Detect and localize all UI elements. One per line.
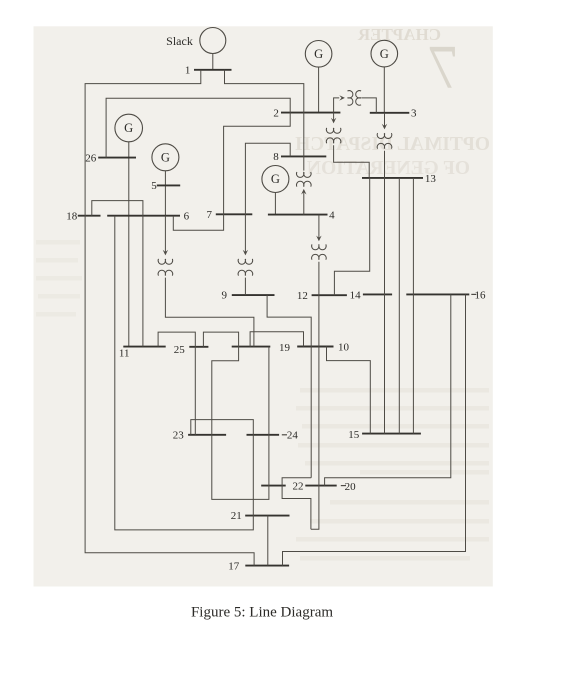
wire line 3-15 long vertical (crosses 13 and 14) bbox=[384, 151, 386, 434]
svg-text:7: 7 bbox=[428, 34, 459, 102]
bus 6 bbox=[107, 215, 180, 217]
wire line 6-23 wrap-around bbox=[115, 216, 254, 530]
svg-text:19: 19 bbox=[279, 342, 291, 354]
svg-text:20: 20 bbox=[345, 481, 357, 493]
wire G5 stem through bus 5 to bus 6 bbox=[164, 171, 166, 216]
label 1 bbox=[185, 65, 191, 77]
transformer T 2-13 bbox=[326, 128, 341, 143]
transformer T 8-9 bbox=[238, 259, 253, 276]
bus 24 bbox=[247, 434, 280, 436]
arrow on line 8-9 bbox=[243, 250, 248, 256]
wire line 10-15 bbox=[327, 347, 371, 434]
svg-text:18: 18 bbox=[66, 211, 78, 223]
svg-text:5: 5 bbox=[151, 180, 157, 192]
svg-text:4: 4 bbox=[329, 209, 335, 221]
svg-text:Slack: Slack bbox=[166, 34, 193, 48]
svg-text:22: 22 bbox=[293, 481, 304, 493]
svg-text:13: 13 bbox=[425, 173, 437, 185]
wire line 21-17 bbox=[267, 516, 269, 566]
bus 5 bbox=[157, 184, 180, 186]
bus 11 bbox=[123, 346, 165, 348]
svg-text:10: 10 bbox=[338, 341, 350, 353]
svg-text:1: 1 bbox=[185, 65, 191, 77]
svg-text:2: 2 bbox=[273, 107, 279, 119]
transformer T 8-4 windings bbox=[297, 172, 312, 187]
transformer T 6-19 bbox=[158, 259, 173, 276]
wire line 2-13 lower section bbox=[334, 145, 370, 178]
svg-text:11: 11 bbox=[119, 348, 130, 360]
decorative bleed-through (not labelled further) bbox=[295, 25, 490, 179]
generator Slack (bus 1) bbox=[200, 28, 226, 54]
label 20 bbox=[345, 481, 357, 493]
transformer T 4-down bbox=[312, 244, 327, 259]
arrow on line 2-13 bbox=[331, 118, 336, 124]
svg-text:G: G bbox=[380, 47, 389, 61]
bus 20 bbox=[305, 485, 336, 487]
wire line 4 transformer upper stem bbox=[318, 215, 320, 239]
bus 9 bbox=[232, 294, 275, 296]
arrow on line 8-4 bbox=[301, 189, 306, 195]
label 20 dash bbox=[341, 485, 346, 487]
wire line 8-4 lower stem bbox=[303, 192, 305, 214]
label 18 bbox=[66, 211, 78, 223]
wire line 2-3 left stem bbox=[334, 98, 340, 113]
bus 3 bbox=[370, 112, 410, 114]
wire bus1 left branch to bus 17 (long left vertical) bbox=[85, 70, 254, 566]
svg-text:6: 6 bbox=[184, 210, 190, 222]
transformer T 3-15 bbox=[377, 133, 392, 149]
svg-text:24: 24 bbox=[287, 430, 299, 442]
svg-text:9: 9 bbox=[221, 290, 227, 302]
bus 10 bbox=[297, 346, 333, 348]
bus 7 bbox=[216, 213, 253, 215]
arrow on line 3-15 bbox=[382, 124, 387, 130]
bus 23 bbox=[188, 434, 226, 436]
svg-text:8: 8 bbox=[273, 151, 279, 163]
wire line 16-20 bbox=[325, 294, 451, 485]
svg-text:7: 7 bbox=[207, 209, 213, 221]
wire G4 stem bbox=[274, 193, 276, 215]
bus 8 bbox=[281, 155, 326, 157]
wire line 3-15 upper stem bbox=[384, 113, 386, 127]
svg-text:3: 3 bbox=[411, 108, 417, 120]
bus 14 bbox=[363, 293, 392, 295]
wire line 2-3 right stem bbox=[361, 98, 376, 113]
wire line 8-4 upper stem bbox=[303, 156, 305, 170]
svg-text:G: G bbox=[124, 121, 133, 135]
wire line 4 long vertical to bottom jog bbox=[311, 262, 319, 530]
wire line 2-7 and 7-6 connector bbox=[173, 113, 290, 231]
bus 2 bbox=[281, 112, 340, 114]
label 5 bbox=[151, 180, 157, 192]
label 4 bbox=[329, 209, 335, 221]
caption bbox=[191, 605, 333, 621]
svg-text:17: 17 bbox=[228, 561, 240, 573]
svg-text:23: 23 bbox=[173, 430, 185, 442]
wire G26 stem and line 26-11 bbox=[128, 142, 130, 347]
label 14 bbox=[350, 289, 362, 301]
label 23 bbox=[173, 430, 185, 442]
page background bbox=[34, 26, 493, 586]
wire line 6-19 lower section bbox=[165, 278, 254, 347]
wire line 13-12 bbox=[334, 178, 369, 295]
label 12 bbox=[297, 290, 308, 302]
label 24 dash bbox=[282, 434, 287, 436]
label 25 bbox=[174, 344, 186, 356]
bus 21 bbox=[245, 515, 289, 517]
generator G at bus 5 bbox=[152, 144, 179, 171]
svg-text:16: 16 bbox=[475, 290, 487, 302]
label 26 bbox=[85, 153, 97, 165]
wire line 8-9 lower section bbox=[244, 278, 246, 296]
label 3 bbox=[411, 108, 417, 120]
bus 25 bbox=[189, 346, 208, 348]
svg-text:21: 21 bbox=[231, 510, 242, 522]
transformer T 2-3 left winding bbox=[348, 91, 353, 106]
wire line 13-15 a bbox=[398, 178, 400, 434]
svg-text:G: G bbox=[161, 151, 170, 165]
wire bracket 11-25 down to 23 bbox=[158, 332, 195, 435]
bus 1 bbox=[194, 69, 232, 71]
wire line 16-17 bbox=[283, 294, 466, 565]
wire line 2-26 bbox=[106, 98, 290, 157]
wire bracket 18-11 bbox=[92, 201, 143, 347]
wire bracket 25-19 snake bbox=[203, 332, 269, 499]
wire line 8-9 upper section bbox=[245, 143, 290, 252]
decorative bleed-through rows (not labelled further) bbox=[36, 240, 489, 561]
wire line 6-19 upper section bbox=[164, 216, 166, 253]
label 11 bbox=[119, 348, 130, 360]
bus 12 bbox=[312, 294, 347, 296]
svg-text:Figure 5: Line Diagram: Figure 5: Line Diagram bbox=[191, 605, 333, 621]
label 16 dash bbox=[471, 293, 476, 295]
bus 26 bbox=[98, 157, 136, 159]
bus 17 bbox=[245, 565, 289, 567]
arrow on line 2-3 bbox=[339, 95, 345, 100]
bus 19 bbox=[232, 346, 271, 348]
bus 22 bbox=[261, 485, 286, 487]
label 13 bbox=[425, 173, 437, 185]
label 21 bbox=[231, 510, 242, 522]
generator G at bus 4 bbox=[262, 166, 289, 193]
svg-text:OF GENERATION: OF GENERATION bbox=[307, 158, 470, 179]
wire G3 stem bbox=[383, 67, 385, 113]
arrow on line 6-19 bbox=[163, 250, 168, 256]
label 17 bbox=[228, 561, 240, 573]
wire line 2-13 upper stem bbox=[333, 113, 335, 121]
label 24 bbox=[287, 430, 299, 442]
label 7 bbox=[207, 209, 213, 221]
bus 13 bbox=[362, 177, 423, 179]
generator G at bus 26 bbox=[115, 114, 143, 142]
arrow on line 4-down bbox=[316, 236, 321, 242]
svg-text:14: 14 bbox=[350, 289, 362, 301]
label 6 bbox=[184, 210, 190, 222]
bus 15 bbox=[362, 433, 421, 435]
label 10 bbox=[338, 341, 350, 353]
wire G2 stem bbox=[318, 67, 320, 113]
svg-text:26: 26 bbox=[85, 153, 97, 165]
label 19 bbox=[279, 342, 291, 354]
label 8 bbox=[273, 151, 279, 163]
bus 4 bbox=[268, 214, 328, 216]
label 2 bbox=[273, 107, 279, 119]
generator G at bus 3 bbox=[371, 40, 398, 67]
wire slack stem bbox=[212, 54, 214, 70]
svg-text:15: 15 bbox=[348, 429, 360, 441]
label 22 bbox=[293, 481, 304, 493]
bus 18 bbox=[78, 215, 101, 217]
bus 16 bbox=[406, 293, 469, 295]
wire jog around label 22 bbox=[282, 478, 311, 529]
svg-text:OPTIMAL DISPATCH: OPTIMAL DISPATCH bbox=[295, 134, 490, 155]
label Slack bbox=[166, 34, 193, 48]
svg-text:12: 12 bbox=[297, 290, 308, 302]
label 9 bbox=[221, 290, 227, 302]
wire bus1 right branch down to bus 8 bbox=[225, 70, 304, 157]
wire line 13-15 b (crosses bus 16) bbox=[412, 178, 414, 434]
wire line 9-10 and continuation to 22 region bbox=[267, 295, 311, 478]
svg-text:G: G bbox=[271, 172, 280, 186]
label 15 bbox=[348, 429, 360, 441]
transformer T 2-3 right winding bbox=[356, 91, 361, 106]
wire bracket 19-10 bbox=[250, 332, 303, 347]
svg-text:G: G bbox=[314, 47, 323, 61]
label 16 bbox=[475, 290, 487, 302]
generator G at bus 2 bbox=[305, 41, 332, 68]
svg-text:25: 25 bbox=[174, 344, 186, 356]
